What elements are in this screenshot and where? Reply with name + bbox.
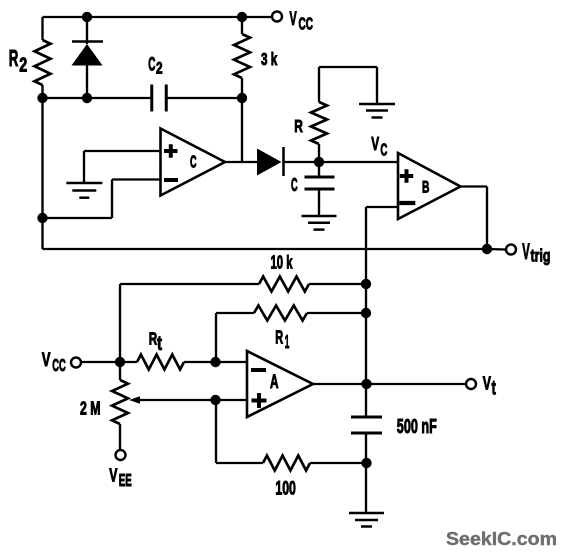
svg-text:100: 100 bbox=[275, 478, 296, 500]
svg-text:R: R bbox=[149, 329, 158, 349]
svg-text:t: t bbox=[157, 332, 162, 355]
svg-text:1: 1 bbox=[285, 331, 290, 352]
svg-text:V: V bbox=[290, 9, 297, 30]
svg-text:V: V bbox=[371, 134, 379, 155]
svg-text:2: 2 bbox=[156, 60, 163, 78]
svg-text:2 M: 2 M bbox=[80, 399, 101, 419]
svg-text:2: 2 bbox=[19, 54, 27, 77]
svg-text:EE: EE bbox=[119, 470, 132, 490]
svg-text:3 k: 3 k bbox=[261, 49, 278, 69]
svg-text:10 k: 10 k bbox=[271, 253, 294, 273]
svg-text:SeekIC.com: SeekIC.com bbox=[446, 528, 557, 549]
svg-text:CC: CC bbox=[52, 355, 66, 375]
svg-text:V: V bbox=[42, 350, 51, 371]
svg-text:C: C bbox=[148, 53, 155, 75]
svg-text:B: B bbox=[422, 179, 429, 197]
svg-text:t: t bbox=[492, 377, 496, 400]
svg-text:C: C bbox=[291, 175, 298, 196]
svg-text:C: C bbox=[380, 140, 387, 160]
svg-text:V: V bbox=[109, 464, 118, 485]
svg-text:A: A bbox=[270, 372, 279, 393]
svg-text:R: R bbox=[9, 45, 19, 71]
svg-text:C: C bbox=[190, 153, 197, 172]
svg-text:R: R bbox=[294, 116, 303, 136]
svg-text:500 nF: 500 nF bbox=[397, 416, 437, 438]
svg-text:CC: CC bbox=[299, 14, 314, 34]
svg-text:R: R bbox=[275, 327, 283, 348]
svg-text:trig: trig bbox=[531, 246, 551, 266]
svg-text:V: V bbox=[483, 373, 492, 394]
svg-text:V: V bbox=[522, 239, 530, 264]
